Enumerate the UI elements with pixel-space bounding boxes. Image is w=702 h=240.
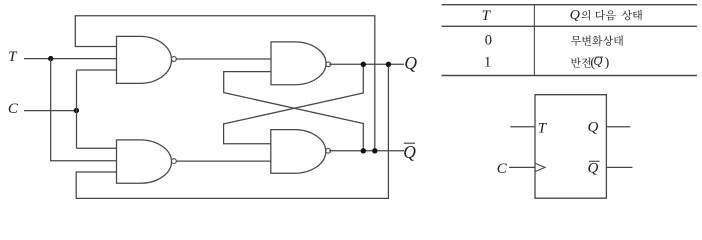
svg-text:Q: Q [588, 161, 599, 177]
node Q-bottom-rail junction [386, 62, 391, 67]
table cell 무변화상태 [571, 36, 623, 47]
node Q-diagonal junction [361, 62, 366, 67]
svg-text:Q: Q [404, 53, 417, 73]
svg-text:Q: Q [570, 8, 580, 23]
wire C branch to gate1 bottom input [77, 69, 117, 71]
wire T input stub [510, 126, 535, 128]
wire Q feedback bottom rail [76, 64, 388, 198]
svg-text:0: 0 [485, 33, 492, 49]
table cell 반전 [571, 57, 591, 67]
NAND gate U2 (bottom-left) body [117, 140, 172, 183]
svg-text:Q: Q [403, 142, 416, 162]
table header rule [442, 25, 697, 27]
NAND gate U1 (top-left) body [117, 36, 172, 83]
wire Q output stub [606, 126, 630, 128]
svg-text:): ) [605, 55, 610, 70]
table cell Q overline [596, 56, 604, 58]
flip-flop box [535, 95, 606, 199]
table top rule [442, 4, 697, 6]
wire gate1 output to gate3 [176, 58, 271, 60]
wire C branch vertical [76, 70, 78, 148]
node Qbar-top-rail junction [372, 148, 377, 153]
node C junction dot [74, 108, 79, 113]
overline of Qbar pin [589, 160, 600, 162]
NAND gate U1 (top-left) output bubble [172, 57, 177, 62]
table column divider [533, 5, 535, 76]
wire Qbar cross-feedback to gate3 lower input [224, 72, 364, 151]
NAND gate U4 (bottom-right) output bubble [326, 148, 331, 153]
wire C input stub [509, 166, 535, 168]
table header text 상태 [622, 10, 642, 21]
wire Qbar output line [329, 150, 404, 152]
table header text 의 [581, 10, 590, 21]
NAND gate U2 (bottom-left) output bubble [172, 159, 177, 164]
clock edge triangle [535, 163, 545, 171]
table header text 다음 [595, 10, 615, 21]
wire T input line [24, 58, 117, 60]
node Qbar-diagonal junction [361, 148, 366, 153]
node T junction dot [48, 56, 53, 61]
wire Qbar output stub [606, 166, 632, 168]
wire C branch to gate2 top input [77, 147, 117, 149]
svg-text:C: C [497, 161, 508, 177]
NAND gate U4 (bottom-right) body [271, 130, 326, 174]
NAND gate U3 (top-right) output bubble [326, 62, 331, 67]
table bottom rule [442, 75, 697, 77]
wire gate2 output to gate4 [176, 160, 271, 162]
wire C input line [24, 110, 77, 112]
svg-text:Q: Q [593, 54, 602, 68]
svg-text:C: C [8, 101, 19, 117]
svg-text:Q: Q [588, 119, 599, 135]
svg-text:1: 1 [484, 55, 491, 71]
wire Q cross-feedback to gate4 upper input [224, 64, 364, 144]
wire T branch to gate2 middle input [51, 59, 117, 161]
overline of Qbar label [404, 142, 415, 144]
NAND gate U3 (top-right) body [271, 42, 326, 85]
wire Q output line [329, 63, 404, 65]
wire Qbar feedback top rail [75, 16, 375, 151]
